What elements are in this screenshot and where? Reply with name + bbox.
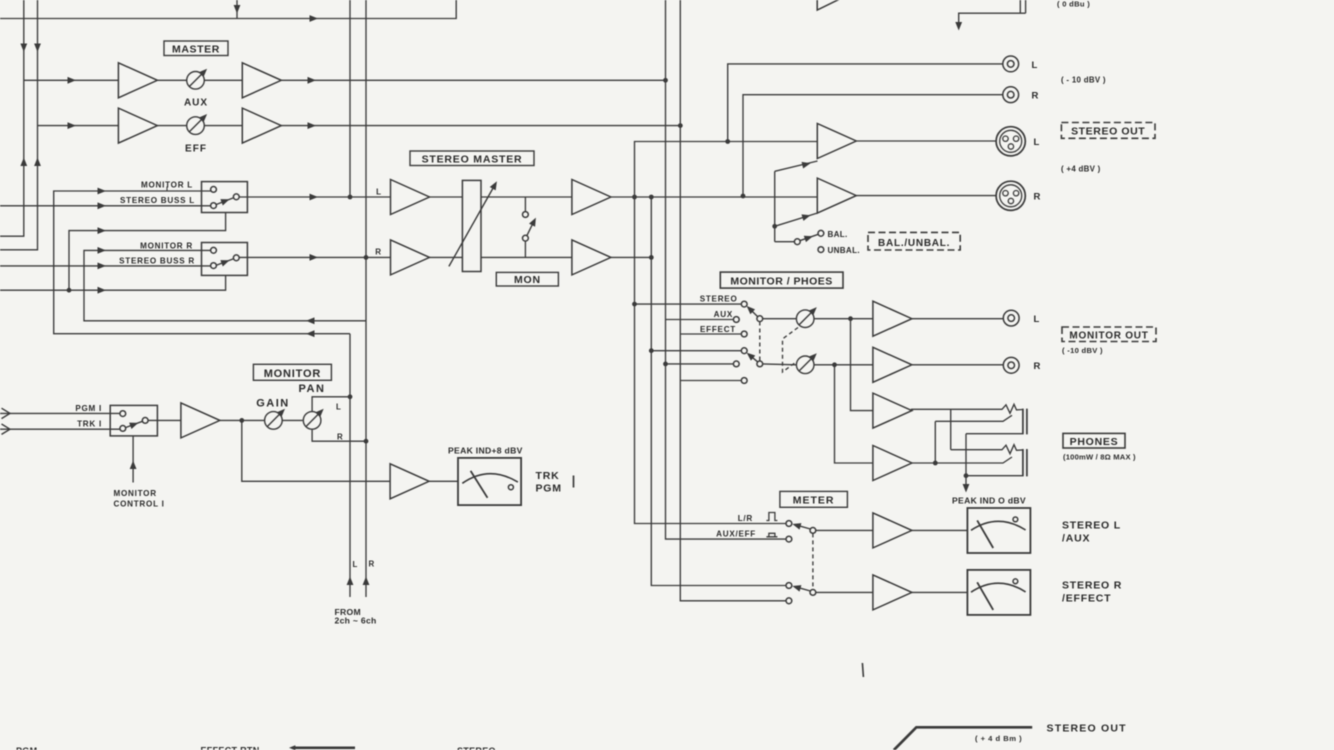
wire RCA L feed (728, 64, 1003, 142)
svg-text:PEAK IND O dBV: PEAK IND O dBV (952, 496, 1026, 506)
wire stub into top bus (236, 0, 238, 19)
wire PAN L leg to bus (312, 397, 350, 411)
wire meter common 2 to amp to VU (816, 591, 968, 593)
svg-text:PAN: PAN (299, 383, 326, 395)
MON switch lever (527, 222, 534, 236)
label box STEREO MASTER (410, 151, 534, 166)
svg-text:EFFECT RTN: EFFECT RTN (201, 746, 260, 750)
wire monitor R amp to RCA (911, 364, 1003, 366)
pulse symbol AUX/EFF (766, 533, 777, 537)
amp A14 phones L (873, 393, 912, 428)
pin circles switch S1 (211, 187, 217, 193)
wire phones L amp to jack1 tip (911, 404, 1023, 413)
wire BAL feedback riser (774, 171, 776, 241)
wire phones L takeoff down to amp (851, 319, 873, 411)
wire stereo L output run to XLR feed corner (610, 196, 817, 198)
switch box S1 MONITOR L / STEREO BUSS L (202, 182, 248, 213)
amp A4 eff booster (242, 108, 281, 143)
svg-text:STEREO MASTER: STEREO MASTER (422, 153, 523, 165)
label box MONITOR / PHOES dashed-solid (720, 272, 843, 288)
label box MASTER (164, 41, 228, 56)
amp A12 monitor out L (873, 301, 912, 336)
potentiometer GAIN (265, 409, 285, 429)
wire monitor select row STEREO (635, 303, 742, 305)
wire jack2 sleeve (966, 475, 1022, 477)
wire monitor select row EFFECT (680, 333, 741, 335)
bus VB effect down to meter lower row (680, 0, 786, 601)
wire switch S1 output to master L amp (239, 196, 391, 198)
wire PAN R leg to bus (312, 430, 366, 441)
level diagram line bottom right (894, 727, 1032, 750)
wire AUX master row (24, 79, 667, 81)
label box MONITOR (253, 364, 331, 380)
wire STEREO BUSS L into switch S1 (0, 205, 211, 207)
tick under MONITOR L label (166, 187, 168, 192)
wire MON switch stub lower (524, 241, 526, 258)
potentiometer monitor level 2 (796, 353, 816, 373)
meter selector pins upper (786, 521, 792, 527)
svg-text:UNBAL.: UNBAL. (828, 246, 860, 255)
switch box S2 MONITOR R / STEREO BUSS R (202, 243, 248, 276)
svg-text:STEREO L: STEREO L (1062, 520, 1121, 532)
lever switch S1 (216, 198, 234, 205)
label box METER (780, 491, 848, 507)
partial fader top right (1020, 0, 1025, 13)
svg-text:BAL.: BAL. (828, 230, 848, 239)
arrow ground sleeve (963, 484, 970, 493)
wire XLR L feed riser and line (635, 142, 818, 198)
svg-text:BAL./UNBAL.: BAL./UNBAL. (878, 238, 950, 249)
potentiometer monitor level 1 (796, 307, 816, 327)
wire top bus from left edge to corner up (0, 0, 456, 19)
bus V1M upper segment ends at stereo L line (349, 0, 351, 197)
svg-text:MON: MON (514, 274, 541, 286)
fader STEREO MASTER (462, 180, 481, 271)
svg-text:( + 4 d Bm ): ( + 4 d Bm ) (975, 734, 1022, 743)
meter selector pins lower (786, 583, 792, 589)
lever meter selector 2 (795, 587, 811, 591)
wire monitor L amp to RCA (911, 318, 1003, 320)
svg-text:R: R (1032, 91, 1039, 102)
svg-text:MONITOR: MONITOR (114, 489, 157, 498)
gang link dashed monitor selector (759, 322, 761, 362)
svg-text:MONITOR R: MONITOR R (140, 241, 193, 250)
svg-text:STEREO: STEREO (457, 746, 496, 750)
wire monitor select row 4 stereo R (651, 350, 741, 352)
amp A3 eff master (118, 108, 157, 143)
wire TRK 1 input (0, 428, 120, 430)
arrow monitor control up (130, 461, 137, 470)
wire below switch S1 down-left to bus (69, 213, 226, 291)
svg-text:/EFFECT: /EFFECT (1062, 593, 1111, 605)
svg-text:MONITOR / PHOES: MONITOR / PHOES (730, 276, 832, 288)
wire monitor select row 6 effect (680, 380, 741, 382)
svg-text:L: L (1034, 137, 1040, 148)
XLR connector L (996, 127, 1025, 156)
wire meter common 1 to amp to VU (816, 529, 968, 531)
wire ring feed down to phones R (934, 421, 936, 463)
wire MONITOR L into switch S1 (54, 191, 350, 334)
wire stereo R output to riser (610, 197, 651, 257)
svg-text:PGM: PGM (16, 746, 37, 750)
bus V2 left with exit to left edge (0, 0, 38, 250)
gang link dashed meter selector (812, 533, 814, 588)
amp A11 top partial (817, 0, 856, 10)
arrowheads on wires (310, 15, 319, 22)
amp A2 aux booster (242, 63, 281, 98)
junction dots (632, 195, 637, 200)
wire monitor common 2 to pot to amp (762, 363, 873, 366)
label box MONITOR OUT dashed (1062, 327, 1156, 342)
jack J1 phones body (1023, 409, 1027, 435)
wire phones R amp to jack2 ring (911, 457, 1012, 463)
potentiometer AUX master (187, 69, 207, 89)
svg-text:PHONES: PHONES (1070, 436, 1119, 448)
label box PHONES (1063, 433, 1125, 448)
gang link dashed monitor pots (783, 328, 799, 373)
VU meter M2 stereo R/EFFECT (967, 570, 1030, 615)
amp A10 XLR R driver (817, 178, 856, 213)
bus VA aux down to meter row AUX/EFF (666, 0, 787, 539)
monitor selector commons (757, 316, 763, 322)
switch box S3 PGM/TRK monitor select (110, 405, 157, 436)
amp A19 trk pgm meter driver (390, 464, 429, 499)
wire monitor common 1 to pot to amp (762, 318, 873, 320)
amp A8 stereo R booster (572, 240, 611, 275)
RCA jack monitor out L (1003, 310, 1019, 326)
wire MON switch stub upper (524, 197, 526, 212)
svg-text:L: L (336, 403, 341, 412)
amp A7 stereo L booster (572, 180, 611, 215)
svg-text:R: R (369, 560, 375, 569)
wire master L amp through fader to booster (427, 196, 572, 198)
amp A5 stereo master L (391, 180, 430, 215)
XLR connector R (996, 181, 1025, 210)
svg-text:2ch ~ 6ch: 2ch ~ 6ch (335, 616, 377, 626)
svg-text:GAIN: GAIN (256, 398, 290, 410)
svg-text:AUX/EFF: AUX/EFF (716, 530, 756, 539)
wire RCA R feed (743, 95, 1003, 196)
stray mark (862, 663, 863, 677)
bottom edge effect rtn line (292, 746, 355, 749)
amp A16 meter L driver (873, 513, 912, 548)
svg-text:L/R: L/R (738, 514, 753, 523)
amp A13 monitor out R (873, 347, 912, 382)
amp A15 phones R (873, 446, 912, 481)
lever meter selector 1 (795, 525, 811, 529)
bus V-R stereo right down to meter row (651, 257, 786, 585)
wire XLR R amp output (856, 195, 996, 197)
wire BAL feedback diagonal to R amp (775, 213, 818, 226)
label box MON (496, 272, 558, 286)
svg-text:TRK I: TRK I (77, 420, 102, 429)
svg-text:(100mW / 8Ω MAX ): (100mW / 8Ω MAX ) (1063, 452, 1136, 461)
wire jack1 sleeve (966, 433, 1022, 435)
bus V1 left with exit to left edge (0, 0, 24, 236)
RCA jack stereo out R (1003, 87, 1019, 103)
wire jack2 tip line (951, 445, 1023, 454)
svg-text:MONITOR: MONITOR (264, 368, 321, 380)
wire top fader hook with arrow (959, 13, 1026, 26)
fader arrow (449, 186, 495, 267)
svg-text:STEREO BUSS R: STEREO BUSS R (119, 256, 195, 265)
svg-text:STEREO BUSS L: STEREO BUSS L (120, 196, 195, 205)
svg-text:( 0 dBu ): ( 0 dBu ) (1057, 0, 1090, 9)
BAL lever arrow (804, 233, 814, 242)
wire monitor meter feed (242, 420, 458, 481)
svg-text:( +4 dBV ): ( +4 dBV ) (1061, 165, 1101, 174)
wire stereo buss row into switch S2 bottom (0, 275, 226, 290)
svg-text:PEAK IND+8 dBV: PEAK IND+8 dBV (448, 446, 523, 456)
BAL switch pins (794, 239, 800, 245)
jack J2 phones body (1023, 449, 1027, 476)
MON switch pins (523, 212, 529, 218)
potentiometer EFF master (187, 114, 207, 134)
wire XLR L amp output (856, 140, 996, 142)
svg-text:STEREO R: STEREO R (1062, 580, 1122, 592)
pin circles switch S2 (211, 247, 217, 253)
RCA jack monitor out R (1003, 357, 1019, 373)
pulse symbol L/R (766, 513, 777, 521)
wire PGM 1 input (0, 412, 120, 414)
svg-text:R: R (1034, 361, 1041, 372)
svg-text:AUX: AUX (184, 98, 208, 109)
amp A6 stereo master R (391, 240, 430, 275)
VU meter M3 TRK PGM (458, 458, 521, 505)
wire sleeve down with arrow (965, 434, 967, 490)
svg-text:/AUX: /AUX (1062, 533, 1090, 545)
svg-text:PGM: PGM (536, 483, 562, 495)
svg-text:MONITOR L: MONITOR L (141, 180, 193, 189)
svg-text:STEREO OUT: STEREO OUT (1047, 723, 1127, 735)
wire phones R takeoff down to amp (835, 365, 873, 463)
lever switch S2 (216, 259, 234, 266)
potentiometer PAN (303, 409, 323, 429)
wire monitor select row AUX (666, 319, 734, 321)
wire EFF master row (38, 125, 682, 127)
switch S3 pins (120, 411, 126, 417)
bus V-L stereo left down to meter row L/R (635, 197, 787, 524)
svg-text:PGM I: PGM I (75, 404, 102, 413)
svg-text:MONITOR OUT: MONITOR OUT (1069, 330, 1148, 341)
amp A18 monitor channel (181, 403, 220, 438)
label box BAL/UNBAL dashed (868, 232, 960, 250)
svg-text:( -10 dBV ): ( -10 dBV ) (1062, 346, 1103, 355)
wire master R amp through fader to booster (427, 256, 572, 258)
svg-text:R: R (375, 248, 381, 257)
RCA jack stereo out L (1003, 56, 1019, 72)
bus V2M monitor R from top to FROM arrows (365, 0, 367, 597)
svg-text:TRK: TRK (536, 470, 560, 482)
lever BAL switch (800, 234, 819, 240)
svg-text:CONTROL I: CONTROL I (114, 499, 165, 508)
lever monitor selector 1 (748, 308, 758, 317)
wire BAL switch common (775, 241, 795, 243)
wire monitor select row 5 aux (666, 363, 734, 365)
wire switch S3 output to monitor amp (148, 419, 181, 421)
svg-text:L: L (1032, 60, 1038, 71)
svg-text:L: L (1034, 314, 1040, 325)
svg-text:L: L (353, 560, 358, 569)
wire MONITOR R into switch S2 (84, 250, 366, 320)
lever switch S3 (125, 421, 142, 427)
wire jack1 ring line (935, 415, 1012, 421)
amp A1 aux master (118, 63, 157, 98)
wire BAL feedback diagonal to L amp (775, 161, 818, 171)
amp A9 XLR L driver (817, 124, 856, 159)
svg-text:R: R (1034, 192, 1041, 203)
label box STEREO OUT dashed (1061, 123, 1155, 139)
amp A17 meter R driver (873, 575, 912, 610)
svg-text:AUX: AUX (714, 310, 733, 319)
svg-text:EFFECT: EFFECT (700, 325, 736, 334)
svg-text:STEREO OUT: STEREO OUT (1071, 126, 1145, 138)
wire MONITOR CONTROL arrow line (132, 436, 134, 483)
wire jack1 to jack2 tip feed (950, 409, 952, 449)
monitor selector pins (741, 301, 747, 307)
wire monitor amp through GAIN and PAN (220, 419, 303, 421)
svg-text:( - 10 dBV ): ( - 10 dBV ) (1061, 76, 1106, 85)
wire switch S2 output to master R amp (239, 256, 391, 258)
lever monitor selector 2 (748, 354, 758, 362)
svg-text:R: R (337, 433, 343, 442)
svg-text:MASTER: MASTER (172, 43, 220, 55)
svg-text:L: L (376, 188, 381, 197)
svg-text:EFF: EFF (185, 144, 207, 155)
svg-text:STEREO: STEREO (700, 295, 738, 304)
svg-text:METER: METER (793, 495, 835, 507)
bus V1M lower segment from return corner to FROM arrows (349, 334, 351, 597)
wire STEREO BUSS R into switch S2 (0, 265, 211, 267)
VU meter M1 stereo L/AUX (967, 508, 1030, 553)
